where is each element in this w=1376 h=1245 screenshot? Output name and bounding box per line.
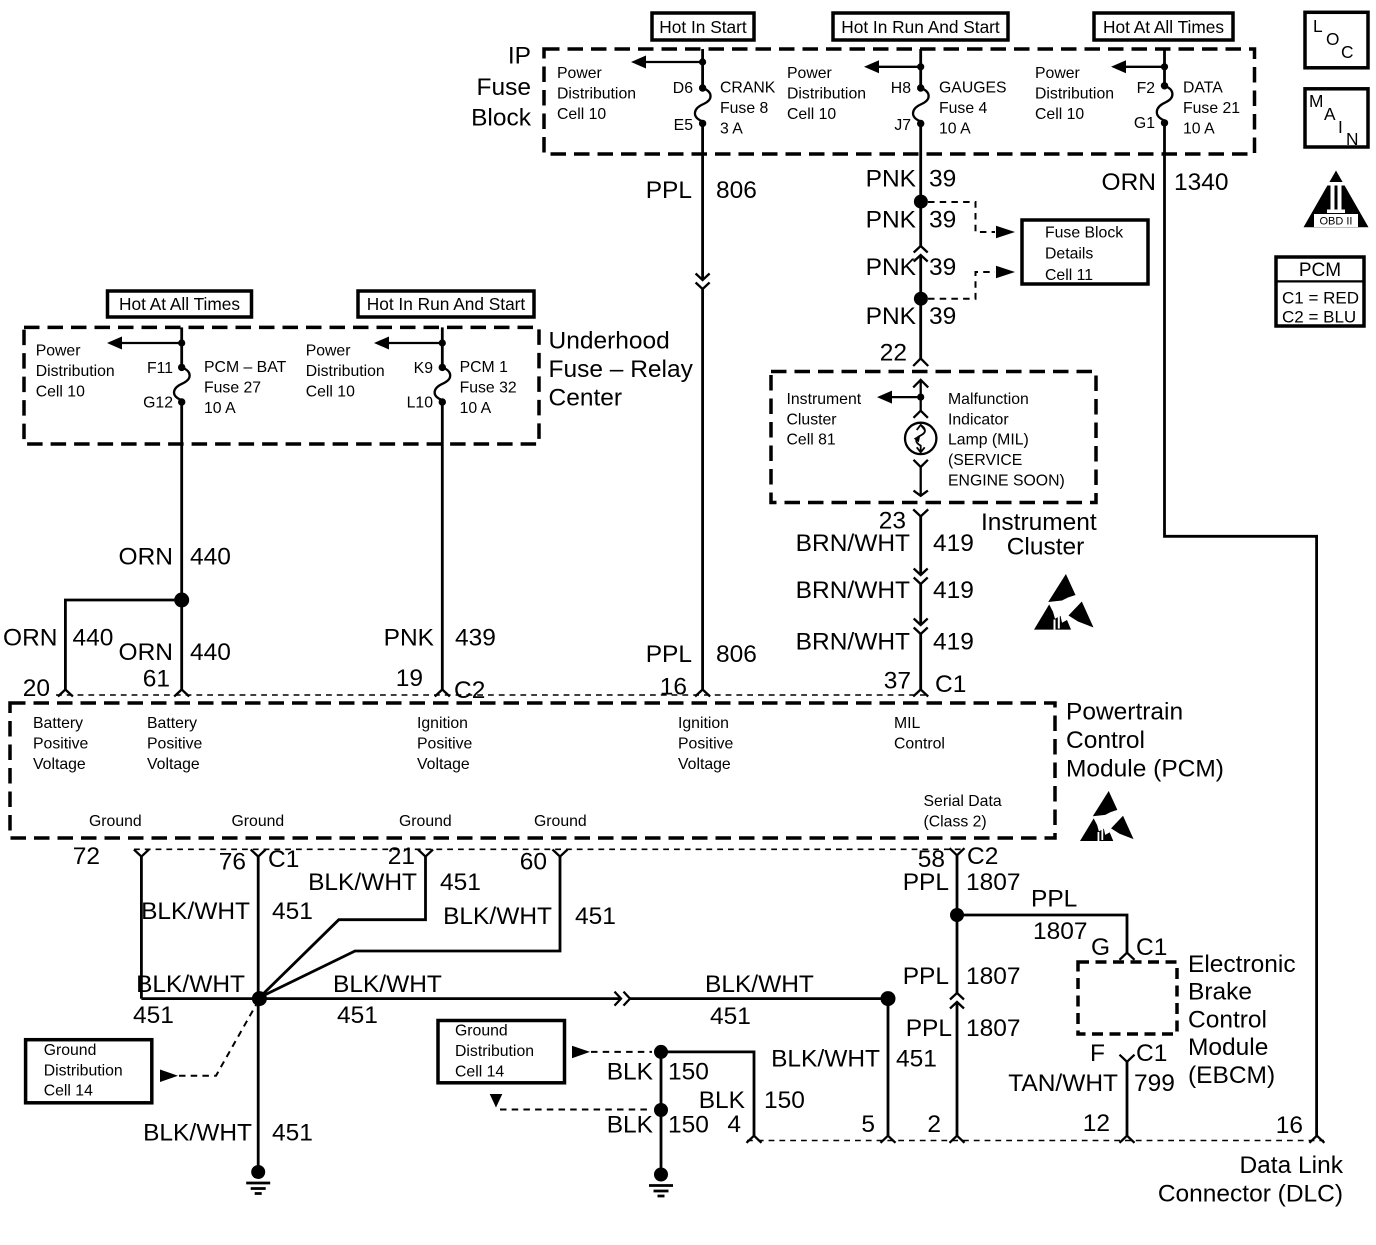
- arrow from Ground Distribution box (right): [572, 1046, 590, 1059]
- svg-text:Fuse 32: Fuse 32: [460, 379, 517, 396]
- svg-text:72: 72: [73, 843, 100, 870]
- svg-text:OBD II: OBD II: [1319, 216, 1352, 228]
- svg-text:PNK: PNK: [866, 166, 917, 193]
- wire BRN/WHT 419 segment 3: [919, 634, 922, 690]
- svg-text:Fuse: Fuse: [477, 74, 531, 101]
- svg-text:Power: Power: [306, 343, 351, 360]
- label ORN 1340: [1102, 169, 1229, 196]
- svg-text:CRANK: CRANK: [720, 79, 776, 96]
- pin 16 PCM: [660, 673, 710, 700]
- svg-text:Distribution: Distribution: [44, 1063, 123, 1080]
- svg-text:PPL: PPL: [1031, 886, 1077, 913]
- svg-text:G1: G1: [1134, 115, 1155, 132]
- svg-text:440: 440: [190, 544, 231, 571]
- pin 19 PCM / connector C2: [396, 665, 486, 704]
- EBCM dashed box: [1078, 962, 1177, 1034]
- node BLK 150 splice upper: [654, 1045, 668, 1059]
- node ORN 440 splice: [174, 593, 189, 608]
- label CRANK Fuse 8 3A: [720, 79, 776, 137]
- svg-text:10 A: 10 A: [460, 400, 492, 417]
- svg-text:PNK: PNK: [866, 254, 917, 281]
- wire BLK/WHT 451 to pin 5: [887, 999, 890, 1136]
- label Power Distribution Cell 10 (CRANK): [557, 65, 636, 123]
- svg-text:PCM – BAT: PCM – BAT: [204, 359, 287, 376]
- wire PPL 806 flow chevrons: [696, 274, 710, 290]
- svg-text:419: 419: [933, 629, 974, 656]
- wire ground pin 60: [261, 857, 560, 997]
- svg-text:419: 419: [933, 530, 974, 557]
- label BLK/WHT 451 (pin 5): [771, 1046, 937, 1073]
- wire PPL 1807 from pin 58: [956, 855, 959, 993]
- svg-text:39: 39: [929, 303, 956, 330]
- svg-text:Distribution: Distribution: [455, 1043, 534, 1060]
- pin 58 PCM / connector C2: [918, 843, 999, 873]
- svg-text:PNK: PNK: [866, 303, 917, 330]
- svg-text:Ground: Ground: [89, 813, 142, 830]
- wire to MIL lamp with chevron: [914, 397, 928, 418]
- svg-text:39: 39: [929, 166, 956, 193]
- header Hot In Start: [652, 13, 754, 40]
- svg-text:C2 = BLU: C2 = BLU: [1282, 308, 1356, 327]
- svg-text:806: 806: [716, 177, 757, 204]
- svg-text:Ignition: Ignition: [678, 715, 729, 732]
- svg-text:C2: C2: [454, 677, 485, 704]
- svg-text:L: L: [1313, 16, 1323, 36]
- arrow to Power Distribution Cell 10 (PCM-BAT): [107, 337, 182, 350]
- svg-text:Power: Power: [1035, 65, 1080, 82]
- pin G EBCM / connector C1: [1091, 934, 1167, 961]
- svg-text:F: F: [1090, 1040, 1105, 1067]
- svg-text:Control: Control: [1188, 1006, 1267, 1033]
- svg-text:PPL: PPL: [906, 1015, 952, 1042]
- pin 61 PCM: [143, 665, 189, 696]
- wire PPL 806 lower segment: [701, 289, 704, 690]
- svg-text:Hot In Start: Hot In Start: [659, 17, 747, 37]
- wire PNK 439: [441, 402, 444, 690]
- svg-text:Cell 81: Cell 81: [787, 432, 836, 449]
- svg-text:39: 39: [929, 207, 956, 234]
- svg-text:Control: Control: [1066, 727, 1145, 754]
- svg-text:Ground: Ground: [455, 1023, 508, 1040]
- label Power Distribution Cell 10 (PCM-BAT): [36, 343, 115, 401]
- wire ground pin 21: [261, 857, 426, 997]
- label Ignition Positive Voltage (pin 19): [417, 715, 473, 773]
- svg-text:451: 451: [896, 1046, 937, 1073]
- svg-text:Cell 14: Cell 14: [455, 1064, 504, 1081]
- svg-text:Distribution: Distribution: [36, 363, 115, 380]
- label Ignition Positive Voltage (pin 16): [678, 715, 734, 773]
- svg-text:(Class 2): (Class 2): [924, 813, 987, 830]
- label BLK/WHT 451 (ground leg): [143, 1120, 313, 1147]
- svg-text:Instrument: Instrument: [787, 391, 862, 408]
- svg-text:451: 451: [272, 1120, 313, 1147]
- svg-text:D6: D6: [673, 80, 693, 97]
- svg-text:BLK/WHT: BLK/WHT: [705, 971, 814, 998]
- svg-text:150: 150: [668, 1059, 709, 1086]
- svg-text:(SERVICE: (SERVICE: [948, 452, 1022, 469]
- svg-text:2: 2: [927, 1111, 941, 1138]
- svg-text:Module (PCM): Module (PCM): [1066, 756, 1224, 783]
- Ground Distribution Cell 14 box (right): [438, 1021, 565, 1083]
- label BLK 150 (lower): [607, 1111, 709, 1138]
- node PNK 39 splice S201 upper: [914, 195, 928, 209]
- wire ground pin 76 down to splice: [257, 857, 260, 999]
- svg-text:Ignition: Ignition: [417, 715, 468, 732]
- svg-text:Distribution: Distribution: [306, 363, 385, 380]
- pin 12 DLC: [1083, 1110, 1135, 1143]
- svg-text:419: 419: [933, 577, 974, 604]
- svg-text:Brake: Brake: [1188, 979, 1252, 1006]
- PCM top connector dashed line: [56, 694, 928, 696]
- node PPL 1807 splice: [950, 908, 964, 922]
- node PCM 1 feed junction: [439, 339, 446, 346]
- fuse F21 DATA 10A: [1157, 82, 1173, 127]
- svg-text:37: 37: [884, 667, 911, 694]
- label BLK/WHT 451 (pin 21): [308, 869, 481, 896]
- svg-text:C: C: [1341, 42, 1353, 62]
- wire flow chevrons right: [615, 992, 631, 1006]
- svg-text:Voltage: Voltage: [33, 756, 86, 773]
- fuse F4 GAUGES 10A: [913, 84, 929, 127]
- label PNK 39 (4): [866, 303, 957, 330]
- label BLK 150 (pin 4 leg): [699, 1087, 805, 1114]
- wire BLK/WHT 451 main horizontal right: [630, 997, 888, 1000]
- label PPL 1807 (2): [903, 963, 1021, 990]
- Ground Distribution Cell 14 box (left): [26, 1040, 152, 1103]
- svg-text:PNK: PNK: [866, 207, 917, 234]
- label BRN/WHT 419 (3): [796, 629, 974, 656]
- svg-text:Data Link: Data Link: [1239, 1152, 1343, 1179]
- arrow into Fuse Block Details (lower): [996, 266, 1015, 278]
- node GAUGES feed junction: [917, 63, 924, 70]
- wire BLK/WHT 451 main horizontal left: [141, 997, 621, 1000]
- label PNK 39 (2): [866, 207, 957, 234]
- pin 5 DLC: [861, 1111, 895, 1143]
- svg-text:22: 22: [880, 340, 907, 367]
- DLC connector dashed line: [747, 1140, 1324, 1142]
- svg-text:Power: Power: [557, 65, 602, 82]
- svg-text:ORN: ORN: [119, 544, 173, 571]
- svg-text:Cell 10: Cell 10: [787, 106, 836, 123]
- label GAUGES Fuse 4 10A: [939, 79, 1007, 137]
- wire PNK 39 upper segment: [919, 124, 922, 247]
- arrow to Power Distribution Cell 10 (DATA): [1111, 60, 1165, 73]
- svg-text:Power: Power: [36, 343, 81, 360]
- pin 20 PCM: [23, 675, 73, 702]
- ESD sensitive symbol (Instrument Cluster): [1034, 574, 1094, 630]
- OBD II triangle symbol: [1304, 171, 1369, 228]
- svg-text:DATA: DATA: [1183, 79, 1223, 96]
- label Instrument Cluster Cell 81: [787, 391, 862, 449]
- header Hot In Run And Start: [833, 13, 1008, 40]
- wire BRN/WHT flow chevrons (2): [914, 619, 928, 635]
- svg-text:PCM 1: PCM 1: [460, 359, 508, 376]
- arrow to Power Distribution Cell 10 (PCM 1): [374, 337, 442, 350]
- label TAN/WHT 799: [1008, 1070, 1175, 1097]
- internal up arrow (cluster): [913, 380, 928, 397]
- svg-text:451: 451: [133, 1002, 174, 1029]
- svg-text:PPL: PPL: [646, 177, 692, 204]
- svg-text:Hot In Run And Start: Hot In Run And Start: [841, 17, 1000, 37]
- wire BRN/WHT 419 segment 1: [919, 516, 922, 575]
- svg-text:1807: 1807: [966, 869, 1021, 896]
- svg-text:Fuse 4: Fuse 4: [939, 100, 988, 117]
- pin 2 DLC: [927, 1111, 964, 1143]
- label BRN/WHT 419 (2): [796, 577, 974, 604]
- svg-text:799: 799: [1134, 1070, 1175, 1097]
- svg-text:I: I: [1338, 117, 1343, 137]
- svg-text:MIL: MIL: [894, 715, 921, 732]
- svg-text:Indicator: Indicator: [948, 411, 1009, 428]
- svg-text:PNK: PNK: [384, 624, 435, 651]
- svg-text:1807: 1807: [966, 1015, 1021, 1042]
- wire PCM-BAT fuse feed: [180, 327, 183, 367]
- svg-text:Hot At All Times: Hot At All Times: [119, 294, 240, 314]
- svg-text:451: 451: [710, 1003, 751, 1030]
- svg-text:Positive: Positive: [33, 736, 89, 753]
- wire PPL 1807 to pin 2: [956, 1002, 959, 1136]
- label PPL 1807 (1): [903, 869, 1021, 896]
- label Battery Positive Voltage (pin 20): [33, 715, 89, 773]
- svg-text:1340: 1340: [1174, 169, 1229, 196]
- svg-text:Ground: Ground: [44, 1042, 97, 1059]
- svg-text:PPL: PPL: [646, 641, 692, 668]
- wire PPL 806 upper segment: [701, 123, 704, 280]
- svg-text:G: G: [1091, 934, 1110, 961]
- svg-text:1807: 1807: [966, 963, 1021, 990]
- dashed reference to BLK 150 lower splice: [500, 1109, 652, 1111]
- node BLK/WHT to DLC junction: [881, 991, 896, 1006]
- Powertrain Control Module dashed box: [10, 703, 1055, 838]
- svg-text:440: 440: [190, 639, 231, 666]
- node PCM-BAT feed junction: [178, 339, 185, 346]
- svg-text:PCM: PCM: [1299, 260, 1341, 281]
- wire PCM 1 fuse feed: [441, 327, 444, 367]
- svg-text:3 A: 3 A: [720, 120, 743, 137]
- label BLK/WHT 451 (after chevrons): [705, 971, 814, 1030]
- svg-text:C2: C2: [967, 843, 998, 870]
- svg-text:BLK/WHT: BLK/WHT: [443, 903, 552, 930]
- Underhood Fuse-Relay Center dashed box: [24, 327, 539, 444]
- svg-text:16: 16: [1276, 1112, 1303, 1139]
- svg-text:10 A: 10 A: [939, 120, 971, 137]
- svg-text:C1: C1: [935, 671, 966, 698]
- svg-text:10 A: 10 A: [1183, 120, 1215, 137]
- pin 23: [879, 507, 928, 534]
- svg-text:Cell 14: Cell 14: [44, 1082, 93, 1099]
- label Malfunction Indicator Lamp (MIL): [948, 391, 1065, 490]
- svg-text:76: 76: [219, 849, 246, 876]
- svg-text:806: 806: [716, 641, 757, 668]
- node MIL feed junction: [917, 394, 924, 401]
- svg-text:C1: C1: [1136, 1040, 1167, 1067]
- svg-text:440: 440: [73, 624, 114, 651]
- wire ground pin 72: [140, 857, 143, 999]
- svg-text:Cluster: Cluster: [1007, 534, 1085, 561]
- wire BRN/WHT 419 segment 2: [919, 584, 922, 625]
- label PPL 1807 (3): [906, 1015, 1021, 1042]
- svg-text:Cell 10: Cell 10: [306, 384, 355, 401]
- label PPL 806 (at PCM): [646, 641, 757, 668]
- header Hot At All Times: [1094, 13, 1233, 40]
- svg-text:Cell 10: Cell 10: [1035, 106, 1084, 123]
- fuse F32 PCM 1 10A: [435, 364, 451, 406]
- wire PPL 1807 flow chevrons: [950, 993, 964, 1009]
- label Power Distribution Cell 10 (PCM 1): [306, 343, 385, 401]
- arrow to Instrument Cluster Cell 81: [877, 391, 921, 404]
- svg-text:PPL: PPL: [903, 963, 949, 990]
- label Battery Positive Voltage (pin 61): [147, 715, 203, 773]
- label PPL 1807 (branch): [1031, 886, 1088, 946]
- label BLK 150 (upper): [607, 1059, 709, 1086]
- label Instrument Cluster: [981, 509, 1097, 561]
- PCM connector legend box: [1276, 257, 1364, 327]
- svg-text:ORN: ORN: [3, 624, 57, 651]
- label Underhood Fuse-Relay Center: [549, 328, 694, 412]
- svg-text:Hot In Run And Start: Hot In Run And Start: [367, 294, 526, 314]
- svg-text:Distribution: Distribution: [1035, 85, 1114, 102]
- svg-text:Fuse Block: Fuse Block: [1045, 225, 1123, 242]
- label BRN/WHT 419 (1): [796, 530, 974, 557]
- arrow from Ground Distribution box (left): [160, 1070, 178, 1083]
- wire CRANK fuse feed: [701, 49, 704, 88]
- wire GAUGES fuse feed: [919, 49, 922, 88]
- svg-text:150: 150: [764, 1087, 805, 1114]
- svg-text:GAUGES: GAUGES: [939, 79, 1007, 96]
- svg-text:Block: Block: [471, 105, 532, 132]
- svg-text:F11: F11: [147, 360, 173, 377]
- label PCM 1 Fuse 32 10A: [460, 359, 517, 417]
- svg-text:BLK/WHT: BLK/WHT: [143, 1120, 252, 1147]
- svg-text:16: 16: [660, 673, 687, 700]
- svg-text:Positive: Positive: [678, 736, 734, 753]
- svg-text:O: O: [1326, 29, 1339, 49]
- svg-text:F2: F2: [1137, 80, 1155, 97]
- svg-text:L10: L10: [407, 395, 434, 412]
- svg-text:Fuse 21: Fuse 21: [1183, 100, 1240, 117]
- label ORN 440 (below splice): [119, 639, 231, 666]
- wire DATA fuse feed: [1163, 49, 1166, 86]
- ESD sensitive symbol (PCM): [1080, 791, 1134, 841]
- svg-text:19: 19: [396, 665, 423, 692]
- svg-text:M: M: [1309, 91, 1323, 111]
- node BLK 150 splice lower: [654, 1103, 668, 1117]
- svg-text:J7: J7: [894, 117, 911, 134]
- svg-text:Ground: Ground: [399, 813, 452, 830]
- svg-text:Connector (DLC): Connector (DLC): [1158, 1181, 1343, 1208]
- svg-text:Positive: Positive: [147, 736, 203, 753]
- svg-text:Distribution: Distribution: [557, 85, 636, 102]
- svg-text:Hot At All Times: Hot At All Times: [1103, 17, 1224, 37]
- svg-text:N: N: [1346, 129, 1358, 149]
- svg-text:Center: Center: [549, 385, 623, 412]
- node CRANK feed junction: [699, 58, 706, 65]
- arrow to Power Distribution Cell 10 (GAUGES): [864, 60, 921, 73]
- svg-text:Fuse 8: Fuse 8: [720, 100, 769, 117]
- header Hot At All Times (Underhood): [108, 291, 252, 317]
- label Data Link Connector (DLC): [1158, 1152, 1344, 1208]
- label BLK/WHT 451 (left of splice): [133, 971, 245, 1029]
- svg-text:A: A: [1324, 104, 1336, 124]
- svg-text:TAN/WHT: TAN/WHT: [1008, 1070, 1118, 1097]
- label Power Distribution Cell 10 (GAUGES): [787, 65, 866, 123]
- svg-text:E5: E5: [674, 117, 694, 134]
- svg-text:Battery: Battery: [147, 715, 197, 732]
- svg-text:Electronic: Electronic: [1188, 951, 1296, 978]
- label BLK/WHT 451 (right of splice): [333, 971, 442, 1029]
- wire BRN/WHT flow chevrons (1): [914, 569, 928, 585]
- svg-text:Voltage: Voltage: [417, 756, 470, 773]
- fuse F8 CRANK 3A: [695, 84, 711, 127]
- svg-text:20: 20: [23, 675, 50, 702]
- svg-text:Serial Data: Serial Data: [924, 793, 1002, 810]
- pin 22 instrument cluster: [880, 340, 928, 367]
- label Power Distribution Cell 10 (DATA): [1035, 65, 1114, 123]
- node DATA feed junction: [1161, 63, 1168, 70]
- svg-text:Cell 11: Cell 11: [1045, 267, 1093, 284]
- wire BLK 150 to ground: [660, 1110, 663, 1168]
- dashed reference to BLK 150 splice: [591, 1051, 652, 1053]
- IP Fuse Block dashed box: [544, 49, 1255, 154]
- svg-text:Battery: Battery: [33, 715, 83, 732]
- svg-text:Cluster: Cluster: [787, 411, 837, 428]
- wire BLK 150 to pin 4: [661, 1052, 754, 1136]
- svg-text:Underhood: Underhood: [549, 328, 670, 355]
- node PNK 39 splice S201 lower: [914, 292, 928, 306]
- Instrument Cluster dashed box: [771, 372, 1096, 503]
- label BLK/WHT 451 (pin 60): [443, 903, 616, 930]
- arrow to Power Distribution Cell 10 (left, CRANK): [631, 56, 703, 69]
- svg-text:Fuse – Relay: Fuse – Relay: [549, 356, 694, 383]
- label Serial Data (Class 2): [924, 793, 1002, 830]
- header Hot In Run And Start (Underhood): [358, 291, 534, 317]
- svg-text:Module: Module: [1188, 1034, 1268, 1061]
- svg-text:Fuse 27: Fuse 27: [204, 379, 261, 396]
- svg-text:Cell 10: Cell 10: [36, 384, 85, 401]
- pin 4 DLC: [727, 1111, 761, 1143]
- svg-text:150: 150: [668, 1111, 709, 1138]
- node ground splice S439: [252, 991, 267, 1006]
- label ORN 440 (above splice): [119, 544, 231, 571]
- label PNK 39 (1): [866, 166, 957, 193]
- svg-text:60: 60: [520, 849, 547, 876]
- svg-text:Voltage: Voltage: [147, 756, 200, 773]
- svg-text:1807: 1807: [1033, 918, 1088, 945]
- wire BLK/WHT 451 to left ground: [257, 999, 260, 1166]
- MAIN symbol box: [1305, 89, 1368, 149]
- svg-text:G12: G12: [143, 395, 173, 412]
- svg-text:C1 = RED: C1 = RED: [1282, 289, 1359, 308]
- LOC symbol box: [1305, 12, 1368, 68]
- svg-text:Powertrain: Powertrain: [1066, 699, 1183, 726]
- svg-text:C1: C1: [268, 846, 299, 873]
- svg-text:BLK/WHT: BLK/WHT: [771, 1046, 880, 1073]
- down arrow below Ground Distribution box (right): [490, 1094, 503, 1108]
- dashed reference from upper splice to Fuse Block Details: [928, 202, 995, 232]
- svg-text:Ground: Ground: [534, 813, 587, 830]
- svg-text:BLK/WHT: BLK/WHT: [333, 971, 442, 998]
- svg-text:Instrument: Instrument: [981, 509, 1097, 536]
- svg-text:Ground: Ground: [232, 813, 285, 830]
- svg-text:Power: Power: [787, 65, 832, 82]
- svg-text:10 A: 10 A: [204, 400, 236, 417]
- svg-text:ORN: ORN: [119, 639, 173, 666]
- svg-text:451: 451: [337, 1002, 378, 1029]
- svg-text:5: 5: [861, 1111, 875, 1138]
- wire BLK 150 between splices: [660, 1052, 663, 1110]
- svg-text:BLK/WHT: BLK/WHT: [136, 971, 245, 998]
- pin 72 PCM: [73, 843, 149, 870]
